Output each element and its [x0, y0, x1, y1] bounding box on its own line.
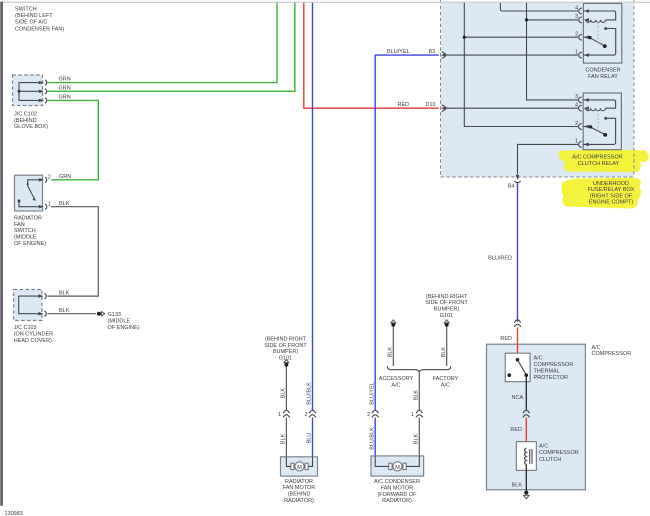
svg-text:M: M: [297, 465, 302, 471]
a/c condenser fan motor M: [371, 456, 424, 476]
connector B4 at fuse box bottom edge: [508, 175, 521, 190]
svg-text:BLK: BLK: [59, 201, 70, 207]
svg-text:BLU/RED: BLU/RED: [488, 255, 512, 261]
svg-text:RADIATOR): RADIATOR): [284, 498, 314, 504]
switch pin 2 connector symbol: [39, 174, 51, 182]
svg-text:(MIDDLE: (MIDDLE: [14, 235, 37, 241]
a/c compressor clutch coil: [516, 442, 536, 471]
a/c compressor thermal protector: [505, 353, 530, 382]
inline connector 1 (condenser fan BLK): [411, 410, 423, 418]
svg-text:GRN: GRN: [59, 85, 71, 91]
ground G101 symbol (accessory): [391, 320, 396, 327]
svg-text:CONDENSER FAN): CONDENSER FAN): [15, 26, 64, 32]
wire BLU/RED (B4 down): [488, 183, 517, 322]
label a/c compressor: [592, 345, 632, 357]
wire BLK (factory ground): [441, 327, 447, 366]
inline connector on BLU/RED: [514, 320, 521, 327]
svg-text:2: 2: [575, 121, 578, 127]
svg-text:1: 1: [278, 412, 281, 418]
svg-text:SWITCH: SWITCH: [15, 6, 37, 12]
compressor relay pin 1: [575, 139, 589, 148]
svg-text:1: 1: [575, 139, 578, 145]
label a/c compressor clutch relay (highlighted): [572, 155, 622, 167]
svg-text:BLU/BLK: BLU/BLK: [369, 427, 375, 450]
radiator fan switch: [15, 175, 43, 211]
wire GRN 2 (C102 to top): [48, 3, 295, 92]
wire BLK (accessory ground): [387, 327, 393, 366]
label a/c condenser fan motor: [374, 479, 420, 504]
label underhood fuse/relay box (highlighted): [588, 181, 635, 206]
svg-text:(BEHIND LEFT: (BEHIND LEFT: [15, 13, 53, 19]
compressor relay pin 4: [575, 103, 589, 112]
wire BLU/YEL (B3 to condenser fan motor): [375, 49, 439, 410]
svg-text:130983: 130983: [5, 511, 23, 516]
svg-text:ACCESSORY: ACCESSORY: [379, 376, 414, 382]
label a/c compressor thermal protector: [534, 355, 574, 381]
yellow highlight over box label: [561, 178, 641, 209]
wire BLK (clutch to ground): [512, 465, 527, 491]
svg-text:A/C COMPRESSOR: A/C COMPRESSOR: [572, 155, 622, 161]
inline connector on NCA wire: [523, 410, 530, 417]
C103 bottom pin connector symbol: [38, 311, 46, 316]
svg-text:COMPRESSOR: COMPRESSOR: [534, 362, 574, 368]
wire GRN 1 (C102 to top): [48, 3, 278, 83]
junction connector J/C C103: [14, 290, 42, 321]
svg-text:(BEHIND RIGHT: (BEHIND RIGHT: [426, 294, 468, 300]
svg-text:PROTECTOR: PROTECTOR: [534, 375, 568, 381]
svg-text:THERMAL: THERMAL: [534, 369, 560, 375]
connector B3 at fuse box edge: [441, 52, 446, 58]
ground G101 note (factory/accessory): [425, 294, 468, 319]
wire BLU lower (to radiator fan motor): [307, 418, 313, 457]
svg-text:BUMPER): BUMPER): [434, 307, 460, 313]
svg-text:RED: RED: [398, 102, 410, 108]
a/c compressor box: [487, 344, 586, 490]
condenser relay pin 2: [575, 32, 589, 41]
wire internal to condenser relay pin 4: [500, 3, 578, 11]
a/c compressor clutch relay: [583, 93, 621, 150]
svg-text:BLU: BLU: [307, 433, 313, 444]
svg-text:GLOVE BOX): GLOVE BOX): [14, 124, 48, 130]
wire internal vertical to pin3s: [525, 3, 578, 100]
svg-text:B3: B3: [429, 49, 436, 55]
label J/C C103 location: [14, 325, 53, 344]
svg-text:(ON CYLINDER: (ON CYLINDER: [14, 332, 53, 338]
svg-text:BLK: BLK: [512, 482, 523, 488]
condenser relay pin 3: [575, 14, 589, 23]
wire BLK lower (to radiator fan motor): [281, 418, 287, 457]
wire BLK (G101 to radiator fan motor): [281, 367, 287, 411]
label G133: [108, 312, 140, 331]
svg-text:GRN: GRN: [59, 94, 71, 100]
svg-text:2: 2: [367, 412, 370, 418]
svg-text:BLK: BLK: [413, 433, 419, 444]
svg-text:CLUTCH: CLUTCH: [539, 457, 561, 463]
svg-text:BLU/YEL: BLU/YEL: [387, 49, 410, 55]
condenser fan relay: [583, 3, 621, 63]
svg-text:(MIDDLE: (MIDDLE: [108, 319, 131, 325]
svg-text:A/C: A/C: [441, 383, 450, 389]
underhood fuse/relay box fill: [441, 3, 634, 177]
svg-text:BLK: BLK: [441, 347, 447, 358]
svg-text:BUMPER): BUMPER): [273, 349, 299, 355]
compressor relay pin 3: [575, 94, 589, 103]
svg-text:COMPRESSOR: COMPRESSOR: [592, 351, 632, 357]
label factory a/c: [433, 376, 459, 388]
label accessory a/c: [379, 376, 414, 388]
svg-text:UNDERHOOD: UNDERHOOD: [593, 181, 629, 187]
wire BLU/BLK lower (to condenser fan motor): [369, 418, 375, 456]
svg-text:SIDE OF FRONT: SIDE OF FRONT: [425, 300, 468, 306]
svg-text:CONDENSER: CONDENSER: [585, 68, 620, 74]
svg-text:A/C CONDENSER: A/C CONDENSER: [374, 479, 420, 485]
svg-text:RED: RED: [510, 427, 522, 433]
svg-text:2: 2: [48, 174, 51, 180]
svg-text:HEAD COVER): HEAD COVER): [14, 338, 52, 344]
inline connector 1 (radiator fan BLK): [278, 410, 290, 418]
svg-text:SIDE OF A/C: SIDE OF A/C: [15, 20, 47, 26]
svg-text:ENGINE COMPT): ENGINE COMPT): [589, 200, 633, 206]
svg-text:BLK: BLK: [413, 390, 419, 401]
wire RED (connector to clutch): [510, 418, 526, 448]
wire BLK lower (to condenser fan motor): [413, 418, 419, 456]
wire RED (connector to compressor): [500, 327, 517, 344]
svg-text:BLU/BLK: BLU/BLK: [307, 382, 313, 405]
wire BLK (C103 to G133): [48, 308, 97, 314]
svg-text:1: 1: [575, 49, 578, 55]
svg-text:FACTORY: FACTORY: [433, 376, 459, 382]
svg-text:(BEHIND RIGHT: (BEHIND RIGHT: [265, 337, 307, 343]
note: switch location text: [15, 6, 64, 32]
condenser relay pin 4: [575, 5, 589, 14]
wire BLK (brace to connector 1): [413, 373, 419, 410]
svg-text:G101: G101: [440, 313, 453, 319]
svg-text:GRN: GRN: [59, 174, 71, 180]
svg-text:1: 1: [411, 412, 414, 418]
svg-text:SIDE OF FRONT: SIDE OF FRONT: [264, 343, 307, 349]
wire RED into thermal protector: [517, 344, 519, 359]
ground G101 symbol (radiator fan): [284, 360, 289, 367]
ground G101 symbol (factory): [444, 320, 449, 327]
svg-text:G133: G133: [108, 312, 121, 318]
C103 top pin connector symbol: [38, 293, 46, 298]
top page border: [2, 1, 650, 3]
svg-text:BLK: BLK: [281, 433, 287, 444]
svg-text:BLK: BLK: [281, 388, 287, 399]
svg-text:RADIATOR: RADIATOR: [14, 216, 42, 222]
brace merging accessory/factory: [387, 366, 450, 372]
wire BLU/BLK (top to radiator fan motor): [312, 3, 314, 410]
svg-text:A/C: A/C: [534, 355, 543, 361]
svg-text:FAN: FAN: [14, 222, 25, 228]
inline connector 2 (radiator fan BLU): [304, 410, 315, 418]
svg-text:FAN MOTOR: FAN MOTOR: [381, 486, 414, 492]
svg-text:BLK: BLK: [59, 291, 70, 297]
svg-text:(BEHIND: (BEHIND: [14, 118, 37, 124]
left page border: [0, 2, 3, 506]
svg-text:RADIATOR): RADIATOR): [382, 498, 412, 504]
connector D10 at fuse box edge: [441, 105, 446, 111]
svg-text:CLUTCH RELAY: CLUTCH RELAY: [578, 161, 620, 167]
svg-text:(RIGHT SIDE OF: (RIGHT SIDE OF: [590, 193, 633, 199]
svg-text:RADIATOR: RADIATOR: [285, 479, 313, 485]
C102 pin 2 connector symbol: [39, 89, 47, 94]
svg-text:J/C C103: J/C C103: [14, 325, 37, 331]
svg-text:D10: D10: [426, 102, 436, 108]
wire D10 to compressor relay pin 4: [446, 107, 578, 109]
svg-text:BLK: BLK: [387, 347, 393, 358]
svg-text:J/C C102: J/C C102: [14, 112, 37, 118]
svg-text:2: 2: [575, 32, 578, 38]
yellow highlight over relay label: [559, 150, 649, 172]
condenser relay pin 1: [575, 49, 589, 58]
svg-text:B4: B4: [508, 184, 515, 190]
svg-text:RED: RED: [500, 336, 512, 342]
svg-text:FAN RELAY: FAN RELAY: [588, 74, 618, 80]
svg-text:3: 3: [575, 94, 578, 100]
wire RED (top to D10): [304, 3, 439, 108]
svg-text:NCA: NCA: [512, 395, 524, 401]
label radiator fan motor: [283, 479, 316, 504]
ground under a/c compressor: [523, 491, 529, 499]
svg-text:A/C: A/C: [539, 444, 548, 450]
svg-text:OF ENGINE): OF ENGINE): [108, 325, 140, 331]
svg-text:COMPRESSOR: COMPRESSOR: [539, 450, 579, 456]
svg-text:(BEHIND: (BEHIND: [288, 492, 311, 498]
svg-text:2: 2: [304, 412, 307, 418]
svg-text:1: 1: [48, 201, 51, 207]
wire B3 to condenser relay pin 1: [446, 54, 578, 56]
svg-text:BLU/YEL: BLU/YEL: [369, 382, 375, 405]
svg-text:4: 4: [575, 103, 578, 109]
svg-text:M: M: [395, 465, 400, 471]
label radiator fan switch: [14, 216, 46, 247]
wire BLK (switch pin1 to J/C C103): [48, 201, 99, 296]
C102 pin 3 connector symbol: [39, 98, 47, 103]
ground G101 note (radiator fan): [264, 337, 307, 362]
inline connector 2 (condenser fan BLU): [367, 410, 378, 418]
wire NCA (protector to connector): [512, 376, 527, 410]
radiator fan motor M: [281, 457, 318, 476]
svg-text:A/C: A/C: [391, 383, 400, 389]
compressor relay pin 2: [575, 121, 589, 130]
junction connector J/C C102: [13, 75, 43, 106]
svg-text:A/C: A/C: [592, 345, 601, 351]
label a/c compressor clutch: [539, 444, 579, 463]
svg-text:SWITCH: SWITCH: [14, 228, 36, 234]
C102 pin 1 connector symbol: [39, 80, 47, 85]
label J/C C102 location: [14, 112, 48, 131]
underhood fuse/relay box dashed border: [441, 0, 634, 177]
wire GRN 3 (C102 to radiator fan switch): [48, 94, 99, 179]
wire compressor relay pin 1 to B4: [518, 144, 579, 174]
svg-text:OF ENGINE): OF ENGINE): [14, 241, 46, 247]
svg-text:3: 3: [575, 14, 578, 20]
svg-text:FUSE/RELAY BOX: FUSE/RELAY BOX: [588, 187, 635, 193]
switch pin 1 connector symbol: [39, 201, 51, 209]
ground G133: [97, 312, 105, 316]
svg-text:(FORWARD OF: (FORWARD OF: [377, 492, 417, 498]
svg-text:4: 4: [575, 5, 578, 11]
label condenser fan relay: [585, 68, 620, 80]
svg-text:BLK: BLK: [59, 308, 70, 314]
wire internal vertical to pin2s: [463, 3, 578, 127]
svg-text:FAN MOTOR: FAN MOTOR: [283, 485, 316, 491]
svg-text:GRN: GRN: [59, 77, 71, 83]
